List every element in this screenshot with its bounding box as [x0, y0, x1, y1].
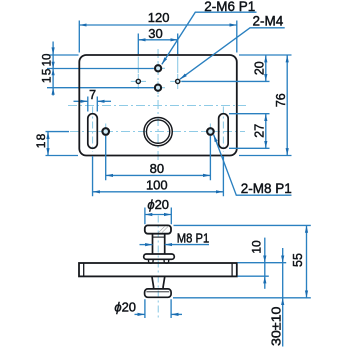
small circle right [207, 128, 214, 135]
bolt shank upper [153, 234, 165, 254]
bolt centerline vertical [157, 216, 159, 319]
extension line 120 right [236, 21, 238, 53]
svg-text:10: 10 [249, 240, 263, 254]
dimension 20 [265, 55, 267, 81]
plate outline [79, 55, 237, 156]
dimension phi20 top [145, 208, 171, 225]
centerline right slot [222, 107, 224, 153]
center ticks M6 holes [152, 62, 166, 94]
upper flange [144, 254, 175, 259]
center ticks M4 left hole [131, 74, 146, 89]
svg-text:80: 80 [150, 161, 164, 176]
dimension 55 [306, 225, 308, 297]
centerline horizontal plate mid [68, 105, 246, 107]
cap knurl marks [159, 227, 169, 233]
flange nub right [164, 259, 169, 263]
big hole inner [146, 120, 169, 143]
bolt shank lower (tapered) [152, 276, 165, 289]
svg-text:30: 30 [148, 26, 162, 41]
centerline left slot [92, 107, 94, 153]
dimension 80 [106, 136, 211, 180]
foot pad inner line [146, 291, 169, 293]
flange nub left [149, 259, 154, 263]
svg-text:ϕ20: ϕ20 [147, 197, 169, 212]
dimension 7 (slot width) [88, 97, 98, 112]
dimension 27 [265, 114, 267, 149]
svg-text:27: 27 [252, 124, 266, 138]
dimension 18 (left, hole row to bottom edge) [46, 132, 79, 156]
center ticks M4 right hole [170, 74, 185, 89]
centerline M4 holes vertical (inside plate) [138, 57, 177, 74]
svg-text:20: 20 [252, 61, 266, 75]
svg-text:10: 10 [41, 54, 53, 67]
svg-text:30±10: 30±10 [269, 306, 283, 346]
svg-text:76: 76 [274, 93, 288, 107]
centerline vertical plate mid [157, 49, 159, 161]
shank chamfer line [153, 236, 165, 238]
M6 hole top [155, 65, 161, 71]
foot pad [145, 289, 172, 297]
bolt cap [145, 225, 171, 233]
dimension 30 [138, 39, 177, 41]
bar (side view of plate) [79, 263, 237, 276]
dimension 76 [286, 55, 288, 156]
dimension 100 [93, 156, 224, 196]
center ticks small circles [99, 124, 218, 140]
dimension 10 (bar thickness) [238, 263, 287, 277]
big hole outer [144, 117, 172, 145]
slot right [219, 114, 229, 149]
svg-text:2-M8 P1: 2-M8 P1 [241, 181, 292, 196]
extension line 30 right [177, 34, 179, 55]
svg-text:120: 120 [148, 10, 170, 25]
bar end chamfer left [83, 263, 85, 276]
extension lines 55 (cap top / pad bottom) [173, 225, 311, 297]
svg-text:7: 7 [89, 88, 96, 102]
svg-text:18: 18 [34, 133, 48, 149]
extension lines left dims 10/15 [47, 55, 154, 88]
small circle left [102, 128, 109, 135]
bar end chamfer right [231, 263, 233, 276]
right side extension lines [182, 55, 292, 156]
svg-text:55: 55 [291, 253, 305, 267]
M4 hole right [176, 79, 180, 83]
slot left [88, 114, 98, 149]
svg-text:100: 100 [146, 178, 168, 193]
extension line 120 left [78, 21, 80, 53]
extension line 30 left [137, 34, 139, 55]
svg-text:15: 15 [39, 67, 53, 83]
dimension 30±10 [282, 248, 284, 347]
svg-text:M8 P1: M8 P1 [177, 231, 210, 246]
dimension phi20 bottom [145, 299, 171, 318]
dimension line 10/15 stack [52, 42, 54, 96]
M4 hole left [136, 79, 140, 83]
svg-text:ϕ20: ϕ20 [114, 299, 136, 314]
dimension 120 [79, 24, 237, 26]
centerline horizontal hole row [70, 131, 245, 133]
M6 hole bottom [155, 85, 161, 91]
svg-text:2-M4: 2-M4 [253, 14, 284, 29]
